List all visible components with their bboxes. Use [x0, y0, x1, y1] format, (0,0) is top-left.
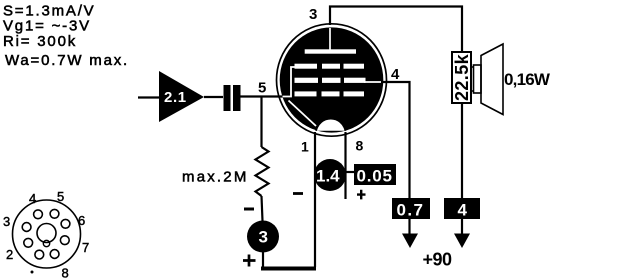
svg-text:5: 5 [258, 80, 266, 97]
grid bracket white [283, 67, 296, 97]
grid g3 row [295, 64, 365, 69]
minus label [244, 208, 254, 211]
battery cell 1.4 V [314, 159, 346, 191]
svg-text:1: 1 [301, 139, 309, 155]
svg-text:Wa=0.7W max.: Wa=0.7W max. [5, 52, 129, 69]
svg-text:Vg1= ~-3V: Vg1= ~-3V [3, 18, 91, 35]
wire triangle to capacitor [204, 96, 223, 98]
amplifier stage triangle 2.1 [159, 71, 204, 122]
svg-text:3: 3 [309, 6, 317, 23]
svg-text:2: 2 [6, 247, 13, 262]
octal socket outline [13, 200, 81, 268]
svg-text:Ri= 300k: Ri= 300k [3, 33, 77, 50]
wire transformer down [461, 103, 463, 198]
resistor max.2M [256, 147, 269, 196]
svg-text:8: 8 [356, 138, 364, 154]
connector cell to box [346, 171, 354, 173]
svg-text:0.05: 0.05 [357, 167, 393, 186]
socket key [43, 240, 49, 246]
filament lead white diagonal [289, 101, 317, 127]
output transformer 22.5k [452, 52, 471, 103]
wire screen pin 4 [381, 82, 410, 198]
wire filament pin8 [344, 132, 346, 199]
svg-text:0,16W: 0,16W [504, 70, 551, 89]
bottom rail [261, 267, 316, 271]
svg-text:4: 4 [458, 201, 468, 220]
svg-text:6: 6 [78, 213, 85, 228]
speaker driver [474, 65, 482, 93]
tube envelope outer circle [277, 24, 387, 136]
svg-text:3: 3 [3, 214, 10, 229]
wire resistor to cell [262, 196, 263, 221]
wire anode to top rail [330, 7, 462, 53]
grid g2 row [295, 78, 366, 83]
tube data text block [3, 3, 129, 70]
svg-text:4: 4 [29, 191, 36, 206]
speaker horn [481, 44, 503, 115]
plus label [243, 255, 256, 267]
tube body disc [280, 27, 384, 132]
minus label filament [293, 192, 303, 195]
svg-text:3: 3 [259, 228, 268, 247]
socket pin numbers [3, 189, 89, 280]
wire input [138, 96, 159, 98]
svg-text:max.2M: max.2M [182, 169, 249, 186]
current box 0.7 [392, 198, 430, 219]
svg-text:8: 8 [62, 266, 69, 280]
filament dome [316, 119, 345, 131]
svg-text:22.5k: 22.5k [452, 53, 472, 101]
svg-text:7: 7 [82, 240, 89, 255]
wire capacitor to grid pin 5 [241, 95, 285, 97]
arrow screen supply [408, 219, 410, 234]
socket pin1 dot [31, 271, 34, 274]
svg-text:2.1: 2.1 [164, 89, 187, 106]
wire filament pin1 [314, 132, 316, 267]
socket center hole [37, 224, 56, 243]
wire cell to rail [262, 252, 264, 267]
screen lead white [364, 81, 382, 83]
speaker connection stubs [471, 67, 474, 91]
grid g1 row [295, 91, 365, 96]
arrow anode supply [461, 219, 463, 234]
plus label filament [357, 190, 366, 200]
battery cell 3 V [247, 221, 279, 253]
svg-text:5: 5 [57, 189, 64, 204]
svg-text:+90: +90 [423, 250, 453, 270]
current box 0.05 [354, 164, 396, 185]
svg-text:1.4: 1.4 [316, 167, 340, 186]
coupling capacitor [224, 85, 231, 111]
wire grid leak vertical [260, 98, 262, 148]
socket pin holes [22, 209, 70, 259]
anode lead white [329, 28, 331, 51]
current box 4 [444, 198, 480, 219]
anode plate bar [305, 49, 356, 53]
svg-text:4: 4 [391, 66, 400, 83]
svg-text:0.7: 0.7 [397, 201, 425, 220]
